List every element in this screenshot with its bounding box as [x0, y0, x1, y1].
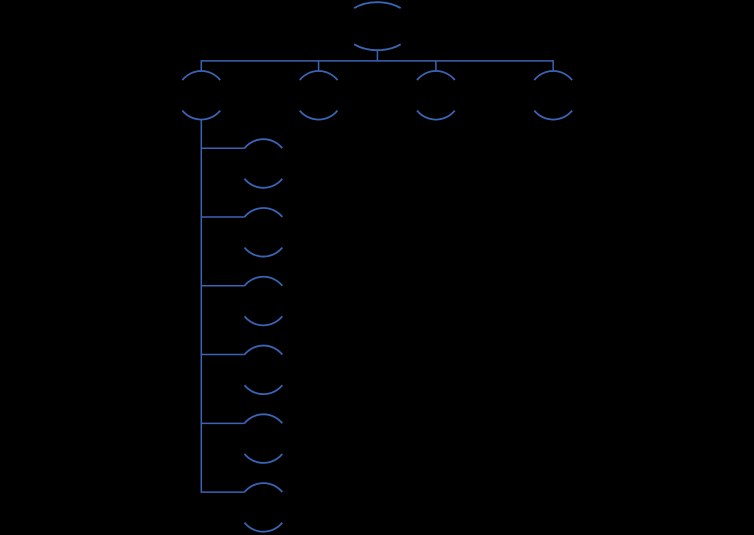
- wire trunk from node A down, ending in branch to node A6: [201, 120, 244, 493]
- wire branch to node A3: [201, 285, 244, 287]
- wire branch to node A5: [201, 422, 244, 424]
- node A3 (sub-level circle, open sides): [245, 277, 283, 326]
- node A4 (sub-level circle, open sides): [245, 346, 283, 395]
- wire branch to node A4: [201, 354, 244, 356]
- wire branch to node A2: [201, 216, 244, 218]
- wire bus rail (horizontal with corner drops to node A and node D): [201, 61, 553, 71]
- node A2 (sub-level circle, open sides): [245, 208, 283, 257]
- wire drop to node C: [435, 61, 437, 71]
- node B (level-2 circle, open sides): [300, 71, 338, 120]
- wire branch to node A1: [201, 147, 244, 149]
- node root (top-level ellipse, open sides): [354, 2, 401, 50]
- wire drop to node B: [318, 61, 320, 71]
- node A6 (sub-level circle, open sides): [245, 483, 283, 532]
- node A5 (sub-level circle, open sides): [245, 414, 283, 463]
- node A1 (sub-level circle, open sides): [245, 139, 283, 188]
- wire root to bus: [376, 50, 378, 61]
- node C (level-2 circle, open sides): [417, 71, 455, 120]
- node A (level-2 circle, open sides): [182, 71, 220, 120]
- node D (level-2 circle, open sides): [534, 71, 572, 120]
